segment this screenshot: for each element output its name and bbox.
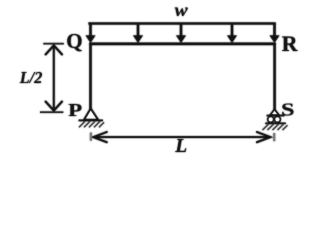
frame drawing (overlay): [19, 0, 299, 157]
frame drawing (soft underlay): [19, 0, 299, 157]
